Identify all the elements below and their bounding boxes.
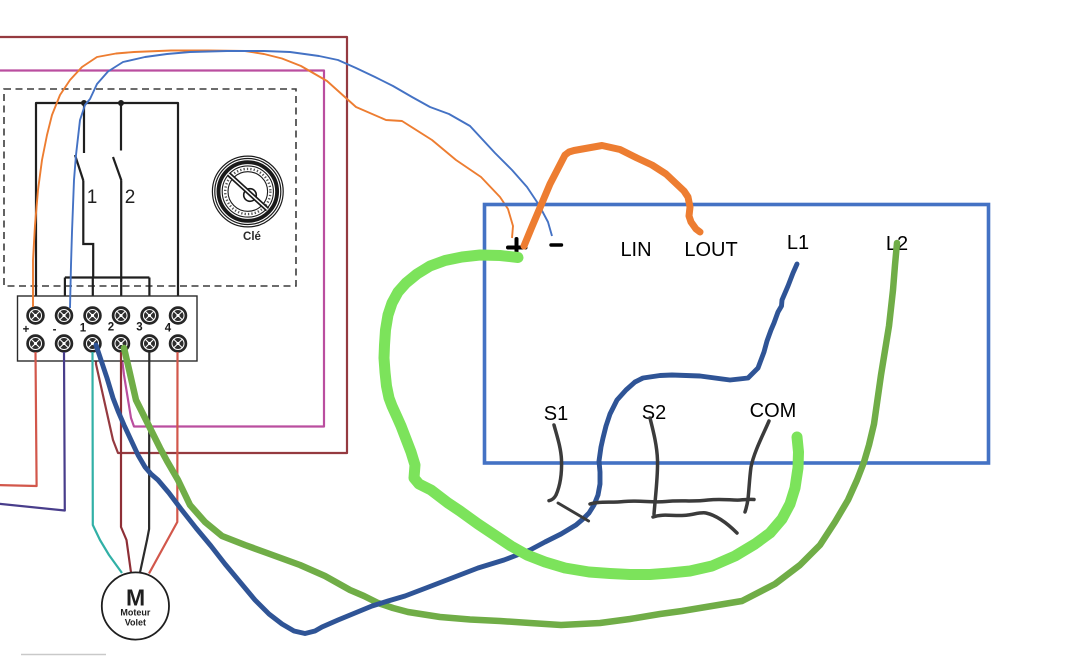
svg-text:4: 4 bbox=[165, 323, 172, 335]
wire indigo from - terminal to left edge bbox=[0, 352, 65, 511]
wire black from terminal 3 to motor bbox=[140, 352, 149, 573]
wire thin orange arc from + terminal over top to controller + bbox=[33, 51, 513, 308]
faint cropped text bottom edge bbox=[21, 654, 106, 656]
terminal 4 top bbox=[170, 308, 186, 324]
wire thin blue arc from - terminal over top to controller - bbox=[70, 51, 552, 308]
jumper squiggle horizontal upper bbox=[590, 499, 754, 504]
svg-text:+: + bbox=[23, 324, 30, 336]
svg-text:L1: L1 bbox=[787, 232, 809, 254]
wire thick light green from + to COM area bbox=[384, 255, 799, 575]
svg-text:2: 2 bbox=[108, 322, 114, 334]
svg-text:2: 2 bbox=[125, 187, 136, 208]
wire olive green from terminal 2 to L2 bbox=[124, 243, 897, 625]
terminal 1 bottom bbox=[85, 336, 101, 352]
terminal 2 top bbox=[113, 308, 129, 324]
terminal - top bbox=[56, 308, 72, 324]
svg-text:1: 1 bbox=[80, 323, 87, 335]
switch circuit rectangle bbox=[36, 103, 178, 306]
svg-text:Moteur: Moteur bbox=[120, 608, 150, 618]
jumper squiggle S1 bbox=[549, 425, 562, 501]
switch contact 2 bbox=[113, 103, 121, 278]
jumper squiggle S1 diagonal bbox=[558, 503, 589, 521]
jumper squiggle S2 bbox=[650, 418, 658, 514]
wire thick orange jumper from + to LOUT bbox=[524, 146, 700, 247]
motor M circle bbox=[102, 572, 169, 639]
terminal block body bbox=[18, 296, 198, 361]
svg-text:S2: S2 bbox=[642, 402, 666, 424]
terminal 3 bottom bbox=[142, 336, 158, 352]
key switch symbol "Clé" bbox=[212, 156, 283, 227]
terminal 3 top bbox=[142, 308, 158, 324]
wire dark blue from terminal 1 to L1 bbox=[96, 264, 797, 634]
jumper squiggle horizontal lower bbox=[653, 513, 737, 533]
wire dark maroon from terminal 2 to motor bbox=[121, 352, 131, 573]
node junction dot B bbox=[118, 100, 124, 106]
svg-text:-: - bbox=[53, 324, 57, 336]
jumper squiggle COM bbox=[745, 421, 769, 512]
svg-text:LOUT: LOUT bbox=[684, 239, 737, 261]
svg-text:S1: S1 bbox=[544, 403, 568, 425]
terminal 1 top bbox=[85, 308, 101, 324]
svg-text:Clé: Clé bbox=[243, 231, 261, 243]
controller box bbox=[485, 205, 989, 464]
wire magenta loop (terminal 2 loop) bbox=[0, 71, 324, 427]
switch contact 1 bbox=[75, 103, 93, 278]
wire bus above terminal block bbox=[65, 278, 149, 309]
svg-text:3: 3 bbox=[136, 322, 142, 334]
dashed key-switch enclosure bbox=[4, 89, 296, 286]
label + bbox=[508, 239, 526, 256]
wire teal from terminal 1 to motor bbox=[93, 352, 123, 573]
terminal - bottom bbox=[56, 336, 72, 352]
svg-text:1: 1 bbox=[87, 187, 98, 208]
svg-text:Volet: Volet bbox=[125, 618, 146, 628]
wire red from terminal 4 to motor bbox=[149, 352, 178, 574]
terminal 4 bottom bbox=[170, 336, 186, 352]
terminal labels + - 1 2 3 4 bbox=[23, 322, 172, 337]
svg-text:COM: COM bbox=[750, 400, 797, 422]
node junction dot A bbox=[81, 100, 87, 106]
terminal + bottom bbox=[28, 336, 44, 352]
wire red from + terminal to left edge bbox=[0, 352, 37, 486]
terminal + top bbox=[28, 308, 44, 324]
terminal 2 bottom bbox=[113, 336, 129, 352]
label - bbox=[551, 243, 562, 246]
svg-text:LIN: LIN bbox=[620, 239, 651, 261]
wire maroon loop (terminal 1 to enclosure frame) bbox=[0, 37, 347, 453]
